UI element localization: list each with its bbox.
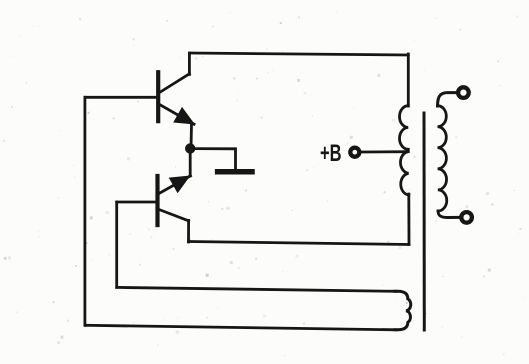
svg-text:+B: +B bbox=[320, 140, 342, 167]
